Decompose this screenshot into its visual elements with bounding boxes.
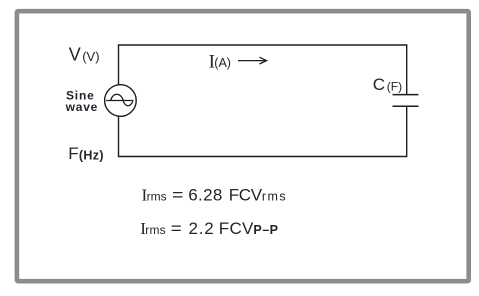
svg-text:(V): (V) xyxy=(82,49,99,64)
svg-text:rms: rms xyxy=(147,189,167,203)
formula Irms = 6.28 FCVrms xyxy=(142,185,288,204)
sine-wave source V1 xyxy=(105,85,137,117)
svg-text:6.28: 6.28 xyxy=(188,185,222,204)
capacitor C xyxy=(393,95,419,107)
wire: capacitor bottom to source bottom xyxy=(119,106,407,156)
label F(Hz) xyxy=(68,144,104,163)
svg-text:FCV: FCV xyxy=(229,185,263,204)
svg-text:(F): (F) xyxy=(387,79,402,93)
svg-text:rms: rms xyxy=(145,223,165,237)
svg-text:P–P: P–P xyxy=(253,223,278,237)
svg-text:FCV: FCV xyxy=(219,219,254,238)
svg-text:(A): (A) xyxy=(214,56,231,70)
svg-text:rms: rms xyxy=(262,189,287,203)
current direction arrow xyxy=(238,57,267,64)
svg-text:(Hz): (Hz) xyxy=(79,149,104,163)
svg-text:=: = xyxy=(172,185,184,204)
label V(V) xyxy=(69,45,100,65)
svg-text:wave: wave xyxy=(65,100,99,114)
svg-text:F: F xyxy=(68,144,78,163)
svg-text:C: C xyxy=(373,75,385,94)
formula Irms = 2.2 FCVp-p xyxy=(140,219,278,238)
svg-text:V: V xyxy=(69,45,81,65)
wire: source top to capacitor top xyxy=(119,45,407,94)
svg-text:=: = xyxy=(171,219,182,238)
label Sine wave xyxy=(65,89,99,114)
label C(F) xyxy=(373,75,402,94)
svg-text:2.2: 2.2 xyxy=(189,219,215,238)
label I(A) current xyxy=(209,52,231,73)
